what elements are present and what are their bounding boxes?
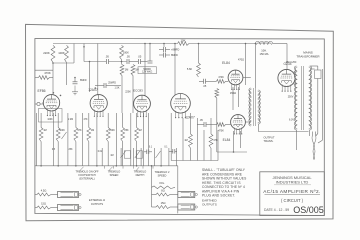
svg-text:8MFD: 8MFD (171, 54, 178, 57)
svg-text:OS/005: OS/005 (293, 205, 324, 215)
wire OPT top feed (255, 43, 257, 88)
input jack J1 (35, 102, 43, 106)
wire column group lower-mid (102, 148, 177, 166)
resistor R4 1M (131, 65, 139, 114)
title text OS/005 (293, 205, 324, 215)
capacitor C1 .05 (84, 55, 127, 64)
resistor R10 (209, 134, 218, 148)
svg-text:2.2M: 2.2M (68, 119, 73, 121)
svg-text:8MFD: 8MFD (80, 79, 87, 82)
tube V5 EL84 (223, 115, 246, 142)
label mains transformer (296, 51, 320, 59)
svg-text:4.5Ω: 4.5Ω (41, 189, 47, 193)
mains lead twisted pair (312, 132, 322, 160)
svg-text:250K: 250K (109, 129, 115, 132)
title text CIRCUIT (281, 198, 304, 203)
svg-text:100K: 100K (47, 119, 53, 121)
svg-text:1M: 1M (135, 68, 139, 72)
capacitor C2 .05 (126, 55, 138, 64)
svg-text:12AX7: 12AX7 (185, 115, 195, 119)
resistor 15R left (37, 202, 51, 209)
label 220K (125, 91, 131, 94)
capacitor C8 .05 grid V4 (199, 79, 217, 88)
svg-text:.05: .05 (203, 85, 207, 88)
svg-text:PLUG AND SOCKET.: PLUG AND SOCKET. (202, 194, 235, 198)
capacitor C10 (144, 150, 152, 155)
label tremolo 2 speed (155, 170, 170, 185)
svg-text:OUTPUT: OUTPUT (264, 136, 275, 140)
svg-text:EL84: EL84 (222, 61, 230, 65)
resistor R3 1M (120, 65, 128, 114)
svg-text:1M: 1M (43, 129, 46, 132)
wire node B (83, 44, 85, 62)
svg-text:DATE 4 - 12 - 59: DATE 4 - 12 - 59 (264, 208, 289, 212)
jack output 3 (170, 192, 197, 198)
svg-text:470K: 470K (218, 76, 224, 79)
svg-text:6.3V: 6.3V (289, 119, 294, 122)
svg-text:DEPTH: DEPTH (136, 173, 145, 177)
bottom bus wire (35, 165, 178, 167)
svg-text:470Ω: 470Ω (238, 59, 244, 62)
wire anode tube V2 (97, 44, 99, 96)
screen box V1 (39, 109, 63, 123)
ground symbol 1 (72, 86, 78, 95)
svg-text:250V: 250V (288, 95, 294, 98)
svg-text:TRANSFORMER: TRANSFORMER (296, 54, 320, 58)
resistor R2 100K (58, 45, 68, 62)
outer border frame (26, 24, 334, 220)
tube V3 12AX7 (171, 94, 195, 120)
svg-text:SPEED: SPEED (110, 173, 119, 177)
labels lower resistors (43, 129, 141, 132)
capacitor C7 25MFD (95, 81, 122, 88)
resistor R5 100K screen (120, 45, 129, 59)
svg-text:.05: .05 (138, 55, 142, 59)
tube V2b ECC83 tremolo (133, 89, 150, 118)
svg-text:47K: 47K (83, 119, 88, 121)
svg-text:12AX7: 12AX7 (88, 88, 98, 92)
pot bush stubs (105, 166, 154, 169)
svg-text:EF86: EF86 (37, 89, 45, 93)
svg-text:5.6K: 5.6K (187, 67, 193, 71)
wire mains live (317, 79, 319, 134)
resistor 470K grid (35, 71, 53, 80)
arrow speed (109, 167, 113, 171)
label external outputs (89, 198, 105, 206)
svg-text:220K: 220K (43, 51, 50, 55)
svg-text:470K: 470K (44, 71, 51, 75)
title text AC/15 AMPLIFIER No2 (263, 189, 321, 194)
wire screen (121, 60, 123, 65)
choke L1 (256, 41, 273, 55)
labels comb extra (47, 119, 168, 157)
wire spk left feed (35, 195, 37, 208)
wire V5 anode (245, 121, 250, 123)
svg-text:10K: 10K (181, 38, 186, 42)
wire column group lower-left (37, 113, 149, 166)
svg-text:1M: 1M (125, 68, 129, 72)
resistor 15R right (156, 201, 170, 208)
label tremolo footswitch (75, 169, 99, 180)
svg-text:TRANS.: TRANS. (264, 139, 274, 143)
capacitor C5 8MFD (159, 53, 178, 58)
resistor R6 5.6K screen (187, 43, 201, 77)
svg-text:15Ω: 15Ω (41, 202, 46, 206)
resistor 8R (156, 189, 170, 196)
HT top bus wire (53, 43, 178, 45)
resistor R1 220K anode (43, 45, 55, 62)
svg-text:47K: 47K (213, 139, 218, 142)
svg-text:470K: 470K (218, 129, 224, 132)
label 1.5K (115, 87, 120, 90)
label tremolo depth (134, 170, 147, 178)
svg-text:100K: 100K (58, 51, 65, 55)
svg-text:INDUSTRIES LTD: INDUSTRIES LTD (276, 180, 309, 185)
capacitor C4 8MFD (159, 47, 179, 52)
tube V6 GZ34 rectifier (278, 62, 295, 92)
wire grid V2 (89, 61, 91, 92)
wire screens feed (238, 43, 246, 85)
svg-text:( CIRCUIT ): ( CIRCUIT ) (281, 198, 304, 203)
title text JENNINGS MUSICAL (272, 175, 312, 180)
label heater winding (289, 119, 294, 122)
wire R2 down (66, 63, 68, 86)
svg-text:EXTERNAL Ω: EXTERNAL Ω (89, 198, 105, 202)
svg-text:25K: 25K (124, 129, 129, 132)
tube V1 EF86 (37, 89, 61, 116)
title text DATE (264, 208, 289, 212)
svg-text:100K: 100K (123, 50, 129, 54)
junction dots bottom bus (40, 165, 162, 167)
svg-text:VOL.: VOL. (159, 181, 165, 185)
panel divider wire (177, 166, 179, 214)
svg-text:TREMOLO 2: TREMOLO 2 (155, 170, 170, 174)
svg-text:15Ω: 15Ω (161, 201, 166, 205)
wire grid top (35, 69, 53, 71)
svg-text:ECC83: ECC83 (133, 89, 143, 93)
wire rectifier anode 1 (294, 71, 297, 73)
capacitor C6 50MFD (138, 43, 157, 74)
svg-text:AC/15 AMPLIFIER Nº2.: AC/15 AMPLIFIER Nº2. (263, 189, 321, 194)
resistor 10K on HT bus (178, 38, 190, 45)
wire mains neutral (310, 69, 322, 140)
svg-text:47K: 47K (77, 129, 82, 132)
wire anode tube V1 (52, 62, 54, 95)
capacitor C3 .05 (138, 55, 148, 64)
svg-text:EL84: EL84 (223, 138, 231, 142)
svg-text:25MFD: 25MFD (108, 81, 116, 84)
svg-text:50MFD: 50MFD (143, 69, 151, 71)
svg-text:12V WKG: 12V WKG (142, 72, 152, 74)
wire V3 anode feed (174, 43, 176, 95)
output transformer T2 core (254, 88, 256, 126)
mains transformer T1 core (301, 66, 303, 130)
svg-text:250-0-250: 250-0-250 (286, 62, 297, 64)
svg-text:1M: 1M (91, 129, 94, 132)
svg-text:1M: 1M (110, 155, 113, 157)
title block box (260, 172, 325, 216)
svg-text:8Ω: 8Ω (161, 189, 164, 193)
resistor group lower (39, 128, 138, 142)
label tremolo speed (108, 169, 121, 177)
wire heater run (297, 130, 310, 150)
jack output 4 (170, 204, 197, 210)
resistor R11 (184, 134, 192, 148)
capacitor C12 8MFD cathode (73, 77, 87, 84)
wire V4 anode (243, 77, 251, 79)
pot box 2 (136, 151, 142, 158)
svg-text:150 MA: 150 MA (260, 52, 269, 56)
wire phase splitter rail (171, 160, 218, 162)
notes text block (202, 168, 247, 206)
tube V2 12AX7 (88, 88, 107, 117)
label HT winding (288, 95, 294, 98)
long divider wire (144, 43, 146, 96)
resistor R8 grid stopper V5 (217, 123, 231, 133)
mains transformer T1 secondary (294, 66, 297, 130)
jack output 1 (51, 192, 81, 198)
resistor R7 grid stopper V4 (217, 76, 229, 83)
wire spk right feed (152, 166, 157, 207)
capacitor C11 (169, 149, 177, 154)
svg-text:OUTPUTS: OUTPUTS (91, 202, 103, 206)
svg-text:.05: .05 (199, 119, 203, 122)
arrow depth (136, 167, 139, 171)
resistor 4.5R (37, 189, 51, 196)
svg-text:1.5K: 1.5K (115, 87, 120, 90)
svg-text:TREMOLO: TREMOLO (134, 170, 147, 174)
label 250-0-250 (286, 62, 297, 64)
svg-text:500K: 500K (59, 129, 65, 132)
svg-text:SPEED: SPEED (158, 174, 167, 178)
resistor row vol (152, 186, 176, 189)
svg-text:1M: 1M (184, 139, 187, 142)
pot wiper arrows (62, 132, 161, 158)
label output trans (264, 136, 275, 143)
svg-text:.05: .05 (105, 55, 109, 59)
svg-text:TREMOLO ON-OFF: TREMOLO ON-OFF (75, 169, 99, 173)
svg-text:FOOTSWITCH: FOOTSWITCH (78, 173, 95, 177)
wire rectifier anode 2 (294, 83, 297, 85)
output transformer T2 secondary (258, 90, 261, 124)
resistor R9 150R cathode (215, 89, 236, 153)
fuse F1 (310, 66, 321, 79)
HT bus wire right (189, 43, 256, 45)
wire node A (53, 44, 74, 64)
svg-text:1M: 1M (138, 129, 141, 132)
jack output 2 (51, 205, 81, 211)
wire V5 cathode (217, 131, 247, 153)
title underline (265, 193, 321, 195)
wire dropper (163, 43, 165, 47)
svg-text:.05: .05 (126, 55, 130, 59)
svg-text:0.02: 0.02 (98, 151, 103, 153)
svg-text:+8MFD: +8MFD (171, 49, 179, 52)
arrow footswitch (80, 167, 84, 171)
mains transformer T1 primary (309, 66, 312, 130)
title text INDUSTRIES LTD (274, 180, 311, 185)
svg-text:25K: 25K (68, 149, 73, 151)
wire V4 pins join (233, 87, 239, 110)
wire V3 pins down (171, 113, 218, 161)
wire OPT secondary out (258, 124, 308, 132)
capacitor C9 .05 grid V5 (197, 119, 217, 127)
wire choke to rectifier (273, 44, 288, 70)
pot box 1 (124, 151, 130, 158)
inner border frame (35, 39, 324, 216)
svg-text:OUTPUTS: OUTPUTS (202, 202, 217, 206)
tube V4 EL84 (222, 61, 243, 90)
svg-text:220K: 220K (125, 91, 131, 94)
output transformer T2 primary (249, 88, 252, 126)
svg-text:(EXTERNAL): (EXTERNAL) (79, 176, 94, 180)
